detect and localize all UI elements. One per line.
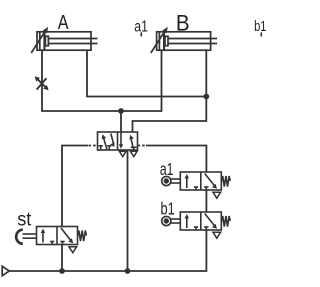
svg-text:A: A xyxy=(58,11,69,34)
svg-text:b1: b1 xyxy=(254,18,266,35)
svg-text:B: B xyxy=(176,11,190,36)
svg-text:a1: a1 xyxy=(160,159,174,179)
svg-text:st: st xyxy=(17,209,32,230)
svg-text:b1: b1 xyxy=(161,198,175,218)
